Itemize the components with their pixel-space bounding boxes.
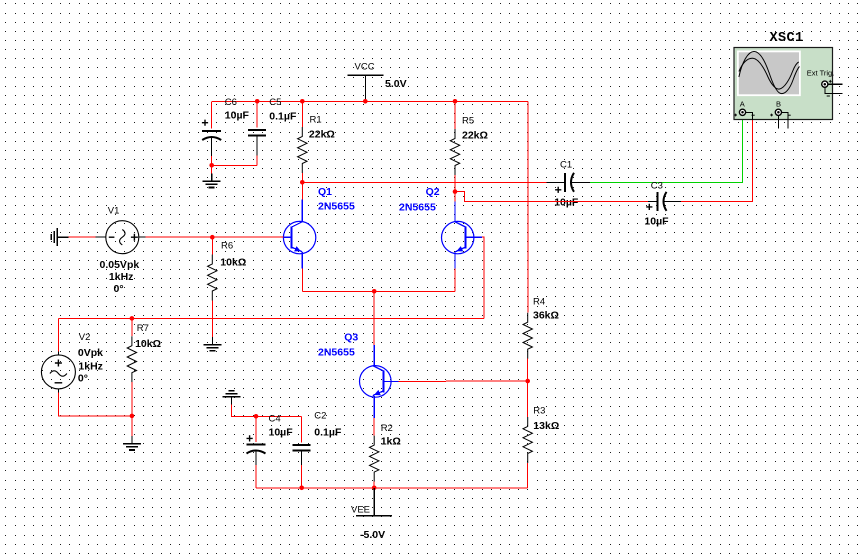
value V2 phase	[78, 373, 88, 385]
wire R5 top lead	[454, 101, 456, 129]
label C1	[560, 160, 572, 171]
resistor R7	[127, 336, 136, 382]
label R1	[310, 114, 322, 125]
svg-text:1kHz: 1kHz	[109, 271, 134, 283]
wire V2 bottom lead	[59, 389, 132, 416]
capacitor C3	[646, 192, 681, 211]
label Q2	[426, 186, 440, 198]
node R7 bottom junction	[130, 414, 135, 419]
wire C4 top lead	[255, 416, 257, 442]
node C5 rail junction	[255, 99, 260, 104]
power VCC symbol	[347, 75, 383, 101]
value R2 1k	[381, 436, 401, 448]
wire R1 bottom lead	[301, 173, 303, 182]
value C1 10uF	[554, 196, 579, 208]
capacitor C4	[247, 435, 266, 465]
svg-text:C1: C1	[560, 160, 572, 171]
value C2 0.1uF	[314, 426, 342, 438]
wire R2 top lead	[373, 418, 375, 436]
svg-text:A: A	[740, 100, 745, 109]
wire Q1 collector drop	[301, 182, 303, 199]
ground above C4	[222, 391, 240, 405]
transistor Q2	[442, 221, 474, 253]
svg-text:V1: V1	[108, 205, 120, 216]
value V2 freq	[78, 361, 103, 373]
label Q3	[344, 331, 358, 343]
svg-text:Q2: Q2	[426, 186, 440, 198]
svg-text:XSC1: XSC1	[770, 31, 804, 46]
node C2 bottom junction	[299, 486, 304, 491]
wire to Q3 collector	[373, 291, 375, 345]
wire Q3 base blue lead	[383, 380, 398, 382]
value 5.0V	[385, 78, 407, 90]
svg-text:10µF: 10µF	[225, 109, 250, 121]
capacitor C1	[547, 173, 590, 193]
label C3	[651, 180, 663, 191]
wire R5 bottom lead	[454, 175, 456, 192]
svg-text:Ext Trig.: Ext Trig.	[807, 68, 835, 77]
node C6-C5 junction	[209, 163, 214, 168]
svg-text:-5.0V: -5.0V	[360, 529, 385, 541]
pin marks Ext	[827, 80, 832, 96]
svg-text:C2: C2	[314, 410, 326, 421]
wire scope A- stub	[746, 112, 753, 120]
svg-text:VEE: VEE	[351, 505, 370, 516]
svg-text:1kΩ: 1kΩ	[381, 436, 401, 448]
resistor R6	[208, 255, 217, 301]
svg-text:Q3: Q3	[344, 331, 358, 343]
wire R6 top lead	[211, 237, 213, 254]
resistor R5	[450, 129, 459, 175]
label C6	[225, 97, 237, 108]
ground at V1	[51, 228, 68, 246]
pin marks B	[770, 114, 791, 117]
label R4	[533, 297, 545, 308]
wire R6 bottom lead	[211, 301, 213, 337]
wire R2 bottom lead	[373, 482, 375, 488]
wire V2 top lead	[58, 318, 60, 355]
terminal B	[775, 109, 781, 115]
svg-text:13kΩ: 13kΩ	[533, 420, 559, 432]
ground under C6	[203, 174, 221, 188]
svg-text:0°: 0°	[114, 283, 124, 295]
node Q1 collector junction	[300, 180, 305, 185]
svg-text:R2: R2	[381, 423, 393, 434]
svg-text:2N5655: 2N5655	[399, 202, 436, 214]
wire rail right drop	[527, 101, 529, 312]
svg-text:R5: R5	[462, 116, 474, 127]
node emitter junction	[372, 289, 377, 294]
node R4-R3 junction	[525, 379, 530, 384]
wire top VCC rail	[212, 100, 528, 102]
wire R7 bottom lead	[131, 382, 133, 416]
wire Q1 emitter drop	[301, 268, 303, 291]
wire scope B- stub	[782, 112, 788, 128]
wire R3 bottom lead	[527, 463, 529, 488]
svg-text:0°: 0°	[78, 373, 88, 385]
label Q1	[318, 186, 332, 198]
capacitor C2	[293, 445, 311, 465]
value C5 0.1uF	[269, 110, 297, 122]
wire C5 top lead	[256, 101, 258, 127]
svg-text:2N5655: 2N5655	[318, 200, 355, 212]
node R6 top junction	[210, 235, 215, 240]
node R5 rail junction	[453, 99, 458, 104]
wire Q2 emitter blue lead	[454, 252, 456, 268]
svg-text:0Vpk: 0Vpk	[78, 347, 103, 359]
svg-text:10kΩ: 10kΩ	[220, 257, 246, 269]
svg-text:10µF: 10µF	[644, 216, 669, 228]
svg-text:1kHz: 1kHz	[78, 361, 103, 373]
wire to ground stub	[211, 165, 213, 173]
value -5.0V	[360, 529, 385, 541]
node C4 top junction	[254, 414, 259, 419]
wire C4-C2 top	[256, 415, 302, 417]
wire red C3 to scope A-	[681, 120, 753, 202]
wire Q3 base to divider	[398, 380, 527, 382]
node Q2 collector junction	[453, 189, 458, 194]
value V1 amplitude	[100, 259, 140, 271]
wire C2 top lead	[301, 416, 303, 442]
svg-text:V2: V2	[79, 332, 91, 343]
label V1	[108, 205, 120, 216]
transistor Q3	[360, 366, 392, 398]
label XSC1	[770, 31, 804, 46]
label C5	[269, 97, 281, 108]
node R1 rail junction	[300, 99, 305, 104]
value Q1 2N5655	[318, 200, 355, 212]
power VEE symbol	[356, 488, 392, 516]
source V1	[95, 221, 145, 254]
capacitor C5	[248, 130, 266, 156]
wire R7 top lead	[131, 318, 133, 336]
wire R3 top lead	[527, 381, 529, 417]
wire ground to V1	[69, 236, 96, 238]
wire V1 to Q1 base	[145, 236, 283, 238]
svg-text:R1: R1	[310, 114, 322, 125]
node R7 top junction	[130, 316, 135, 321]
value C6 10uF	[225, 109, 250, 121]
svg-text:5.0V: 5.0V	[385, 78, 407, 90]
node VEE junction	[372, 486, 377, 491]
instrument XSC1 oscilloscope body	[734, 48, 833, 120]
svg-text:Q1: Q1	[318, 186, 332, 198]
svg-text:C6: C6	[225, 97, 237, 108]
label R5	[462, 116, 474, 127]
wire ext trig minus stub	[825, 87, 843, 93]
label VEE	[351, 505, 370, 516]
value R4 36k	[533, 310, 559, 322]
svg-text:0.1µF: 0.1µF	[269, 110, 297, 122]
label R7	[137, 323, 149, 334]
svg-text:VCC: VCC	[355, 62, 375, 73]
svg-text:10µF: 10µF	[269, 426, 294, 438]
wire Q2 base blue lead	[466, 236, 482, 238]
resistor R1	[298, 127, 307, 173]
value C4 10uF	[269, 426, 294, 438]
svg-text:2N5655: 2N5655	[318, 347, 355, 359]
label R3	[533, 405, 545, 416]
wire C4 bottom lead	[255, 465, 257, 488]
wire Q2 node to C3	[455, 192, 648, 202]
svg-text:C3: C3	[651, 180, 663, 191]
label VCC	[355, 62, 375, 73]
ground under R7	[123, 436, 141, 450]
svg-text:R3: R3	[533, 405, 545, 416]
value C3 10uF	[644, 216, 669, 228]
source V2	[41, 355, 75, 389]
wire scope B+ stub	[777, 115, 779, 128]
label C4	[269, 414, 281, 425]
ground under R6	[203, 337, 221, 351]
terminal Ext Trig	[822, 81, 828, 87]
wire Q1 collector blue lead	[301, 200, 303, 222]
resistor R2	[370, 436, 379, 482]
resistor R4	[523, 313, 532, 359]
svg-text:B: B	[776, 100, 781, 109]
svg-text:22kΩ: 22kΩ	[309, 128, 335, 140]
value Q2 2N5655	[399, 202, 436, 214]
svg-text:10kΩ: 10kΩ	[135, 338, 161, 350]
wire Q2 base drop	[482, 237, 484, 318]
value V2 amplitude	[78, 347, 103, 359]
node VCC rail junction	[363, 99, 368, 104]
resistor R3	[523, 417, 532, 463]
label B	[776, 100, 781, 109]
label V2	[79, 332, 91, 343]
wire C2 bottom lead	[301, 465, 303, 488]
wire V2 bus	[59, 317, 484, 319]
wire Q3 emitter blue lead	[373, 396, 375, 418]
wire C6 bottom	[211, 156, 213, 165]
value R7 10k	[135, 338, 161, 350]
value Q3 2N5655	[318, 347, 355, 359]
label R6	[221, 241, 233, 252]
wire C6 top lead	[211, 101, 213, 128]
pin marks A	[734, 114, 755, 117]
label R2	[381, 423, 393, 434]
wire R7 ground stub	[131, 416, 133, 436]
label Ext Trig	[807, 68, 835, 77]
svg-text:R4: R4	[533, 297, 545, 308]
wire ext trig plus stub	[828, 83, 843, 85]
svg-text:0.05Vpk: 0.05Vpk	[100, 259, 140, 271]
svg-text:C4: C4	[269, 414, 281, 425]
wire C5 bottom	[212, 156, 258, 166]
wire ground to C4	[231, 405, 256, 417]
wire bottom VEE rail	[256, 487, 528, 489]
capacitor C6	[202, 120, 221, 157]
svg-text:R7: R7	[137, 323, 149, 334]
value V1 phase	[114, 283, 124, 295]
wire green C1 to scope A+	[590, 116, 743, 183]
svg-text:C5: C5	[269, 97, 281, 108]
transistor Q1	[283, 221, 315, 253]
wire Q1 emitter blue lead	[301, 252, 303, 268]
label A	[740, 100, 745, 109]
wire Q2 collector drop	[454, 192, 456, 202]
wire Q1 collector to C1	[302, 181, 546, 183]
wire R1 top lead	[301, 101, 303, 127]
wire Q3 collector blue lead	[373, 345, 375, 366]
svg-text:22kΩ: 22kΩ	[462, 129, 488, 141]
value R1 22k	[309, 128, 335, 140]
svg-text:R6: R6	[221, 241, 233, 252]
label C2	[314, 410, 326, 421]
value R5 22k	[462, 129, 488, 141]
wire Q2 collector blue lead	[454, 201, 456, 221]
value V1 freq	[109, 271, 134, 283]
wire emitter join	[302, 290, 455, 292]
terminal A	[739, 109, 745, 115]
value R6 10k	[220, 257, 246, 269]
svg-text:10µF: 10µF	[554, 196, 579, 208]
svg-text:36kΩ: 36kΩ	[533, 310, 559, 322]
value R3 13k	[533, 420, 559, 432]
wire Q1 base blue lead	[283, 236, 291, 238]
wire R4 bottom lead	[527, 359, 529, 381]
svg-text:0.1µF: 0.1µF	[314, 426, 342, 438]
wire Q2 emitter drop	[454, 268, 456, 291]
